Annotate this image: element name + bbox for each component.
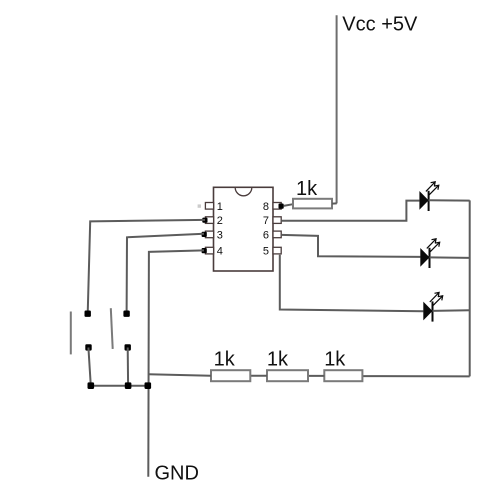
svg-text:GND: GND [155, 463, 199, 485]
switch S1 bottom terminal [85, 344, 91, 350]
LED D1 [419, 182, 438, 211]
svg-text:1k: 1k [296, 178, 318, 200]
LED D2 [420, 239, 439, 268]
switch S1 top terminal [85, 311, 91, 317]
svg-text:3: 3 [217, 230, 223, 242]
wire Vcc vertical [336, 15, 338, 203]
switch S2 lever [111, 308, 113, 349]
resistor R2 1k [211, 370, 250, 381]
wire LED D3 cathode to rail [433, 309, 470, 312]
svg-text:8: 8 [263, 201, 269, 213]
wire LED D2 cathode to rail [430, 256, 470, 259]
wire switch S1 to bottom bus [88, 348, 90, 386]
node pin 2 junction dot [202, 218, 207, 223]
pin 3 box [205, 231, 213, 238]
pin 4 box [205, 247, 213, 254]
pin 2 box [205, 217, 213, 224]
wire LED D1 cathode to rail [429, 199, 470, 201]
svg-text:6: 6 [263, 230, 269, 242]
svg-text:7: 7 [263, 215, 269, 227]
resistor R3 1k [267, 370, 308, 381]
wire switch S2 to bottom bus [127, 348, 129, 386]
svg-text:Vcc +5V: Vcc +5V [342, 14, 418, 36]
wire resistor R1 to Vcc line [332, 202, 337, 204]
wire pin 8 to resistor R1 [284, 204, 294, 206]
wire feed to R2 [149, 374, 212, 376]
wire pin 5 to LED D3 anode [280, 255, 424, 311]
pin 6 box [273, 231, 281, 238]
node pin 8 junction dot [279, 204, 284, 209]
pin 1 unconnected marker [198, 204, 201, 207]
switch S1 lever [70, 312, 72, 355]
svg-text:4: 4 [217, 246, 223, 258]
wire pin 7 to LED D1 anode [281, 201, 419, 221]
IC U1 body [214, 187, 274, 271]
svg-text:1k: 1k [324, 348, 346, 370]
svg-text:1: 1 [217, 201, 223, 213]
wire right rail [469, 200, 471, 376]
pin 8 box [273, 203, 281, 210]
wire bottom bus [91, 385, 148, 387]
node bus junction left [88, 382, 95, 389]
resistor R4 1k [324, 370, 362, 381]
switch S2 bottom terminal [125, 344, 131, 350]
svg-text:5: 5 [263, 246, 269, 258]
wire pin 4 to GND [148, 250, 204, 476]
svg-text:1k: 1k [214, 348, 236, 370]
resistor R1 1k [293, 199, 332, 209]
wire R2-R3 link [250, 375, 267, 377]
wire pin 3 to switch S2 [127, 234, 204, 314]
node pin 3 junction dot [202, 232, 207, 237]
svg-text:1k: 1k [267, 348, 289, 370]
pin 5 box [273, 247, 281, 254]
switch S2 top terminal [123, 311, 129, 317]
svg-text:2: 2 [217, 215, 223, 227]
wire pin 2 to switch S1 [88, 220, 205, 314]
node bus junction middle [125, 382, 132, 389]
wire bottom right [362, 375, 469, 377]
pin 1 box [205, 203, 213, 210]
wire pin 6 to LED D2 anode [281, 235, 420, 257]
pin 7 box [273, 217, 281, 224]
wire R3-R4 link [308, 375, 324, 377]
node pin 4 junction dot [202, 248, 207, 253]
LED D3 [423, 292, 442, 321]
node bus junction right [145, 382, 152, 389]
